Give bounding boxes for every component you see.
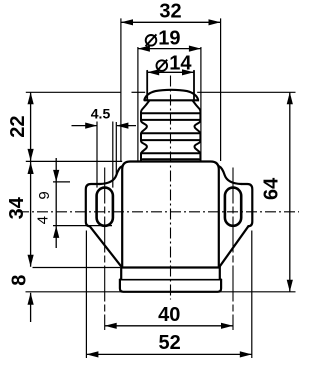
vertical centerline (170, 76, 172, 300)
flange-top ext (33, 267, 121, 269)
right ear lower diagonal (219, 226, 248, 267)
4 bottom ext (53, 225, 112, 227)
center lines (18, 76, 299, 331)
bottom flange (120, 268, 221, 292)
svg-text:34: 34 (6, 196, 28, 219)
svg-text:14: 14 (169, 53, 192, 75)
cap (145, 90, 199, 101)
left profile (141, 101, 149, 162)
top ext y=92.3 left part (26, 91, 121, 93)
dim 52 (86, 353, 251, 355)
right slot (225, 188, 241, 226)
diameter symbols drawn (146, 34, 168, 71)
rib line pair3 lower (143, 158, 199, 160)
9 top ext (53, 181, 70, 183)
top ext y=92.3 right part (197, 91, 295, 93)
left ear lower diagonal (90, 226, 122, 267)
4.5 ext: slot right edge (112, 122, 114, 188)
d19 circle (146, 35, 157, 46)
d19 ext left (137, 47, 139, 161)
svg-text:22: 22 (7, 115, 29, 137)
svg-text:8: 8 (8, 275, 30, 286)
52 ext right (251, 231, 253, 359)
right profile (193, 101, 201, 162)
dim 4.5 (outside arrows) (72, 125, 97, 127)
dim d14 (147, 71, 194, 73)
4.5 ext: slot left edge (96, 122, 98, 188)
4.5 ext: fillet line (115, 122, 117, 174)
rib line pair2 upper (141, 132, 200, 134)
body-top ext y=161.4 (26, 160, 122, 162)
flange inner line (120, 279, 220, 281)
extension lines (26, 18, 296, 358)
52 ext left (85, 231, 87, 359)
stem (d14 cylinder) (146, 71, 148, 100)
svg-text:64: 64 (261, 177, 283, 200)
slot centerline right / 40 ext (232, 168, 234, 331)
svg-text:9: 9 (36, 191, 53, 199)
svg-text:32: 32 (159, 1, 181, 23)
svg-text:52: 52 (158, 332, 180, 354)
slot centerline left / 40 ext (104, 168, 106, 331)
d19 ext right (200, 47, 202, 161)
rib line pair2 lower (141, 139, 200, 141)
dim d19 (138, 48, 201, 50)
bellows (141, 101, 200, 162)
dim 22/34/8 vertical line (30, 92, 32, 266)
rib line pair1 upper (141, 112, 200, 114)
dim 9/4 vertical line (55, 158, 57, 248)
dim 40 (105, 325, 233, 327)
32 ext left (120, 18, 122, 161)
svg-text:19: 19 (158, 27, 180, 49)
left slot (97, 188, 113, 226)
svg-text:4.5: 4.5 (91, 105, 111, 121)
rib line pair3 upper (141, 152, 200, 154)
dim 64 (289, 92, 291, 291)
right ear (219, 166, 241, 184)
32 ext right (220, 18, 222, 161)
dimension lines with arrows (28, 19, 293, 357)
rib line pair1 lower (141, 119, 200, 121)
dim 32 (121, 21, 221, 23)
d14 circle (157, 60, 168, 71)
horizontal centerline (18, 211, 299, 213)
bottom ext y=291.8 full (26, 291, 296, 293)
svg-text:40: 40 (158, 304, 180, 326)
body outline (122, 162, 219, 268)
svg-text:4: 4 (35, 216, 52, 224)
left ear (100, 166, 122, 184)
